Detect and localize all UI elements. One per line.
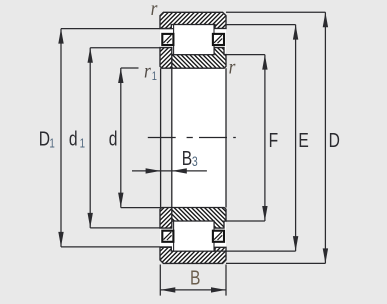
svg-text:r: r bbox=[229, 56, 236, 79]
centerline (dash-dot axis) bbox=[148, 137, 236, 139]
cage top-left box bbox=[162, 34, 173, 45]
svg-text:d: d bbox=[109, 128, 118, 150]
dimension D1 (left outermost) bbox=[61, 29, 174, 247]
dimension d (left inner) bbox=[121, 68, 161, 208]
cage bottom-left box bbox=[162, 231, 173, 242]
dimension F (right inner) bbox=[226, 55, 265, 221]
svg-text:F: F bbox=[269, 129, 279, 151]
roller bottom (white rectangle) bbox=[174, 221, 214, 251]
node cavity-top: white clearance space between rings (top section) bbox=[160, 25, 226, 55]
dimension E (right middle) bbox=[213, 25, 296, 252]
wire bore-face-right vertical bbox=[225, 68, 227, 207]
dimension B3 line with inward arrows bbox=[132, 170, 207, 172]
svg-text:r: r bbox=[144, 60, 151, 83]
svg-text:E: E bbox=[298, 129, 308, 151]
dimension d1 (left middle) bbox=[90, 48, 161, 228]
svg-text:d: d bbox=[69, 128, 78, 150]
wire bore-face-left vertical bbox=[160, 68, 162, 207]
wire seam vertical (loose flange ring joint) bbox=[171, 68, 173, 207]
dimension B extension lines bbox=[160, 265, 226, 296]
svg-text:r: r bbox=[151, 0, 158, 20]
node cavity-bottom: white clearance space between rings (bottom section) bbox=[160, 221, 226, 251]
svg-text:B: B bbox=[190, 267, 200, 289]
dimension B arrows bbox=[160, 287, 175, 292]
cage bottom-right box bbox=[213, 231, 224, 242]
svg-text:1: 1 bbox=[152, 70, 157, 83]
svg-text:1: 1 bbox=[49, 137, 54, 150]
svg-text:B: B bbox=[182, 147, 192, 169]
svg-text:D: D bbox=[329, 129, 340, 151]
svg-text:3: 3 bbox=[192, 154, 198, 170]
svg-text:D: D bbox=[39, 128, 50, 150]
node bore: white bore opening between inner-ring sections bbox=[172, 68, 226, 207]
roller top (white rectangle) bbox=[174, 25, 214, 55]
cage top-right box bbox=[213, 34, 224, 45]
dimension D (right outermost) bbox=[226, 12, 325, 263]
svg-text:1: 1 bbox=[80, 137, 85, 150]
